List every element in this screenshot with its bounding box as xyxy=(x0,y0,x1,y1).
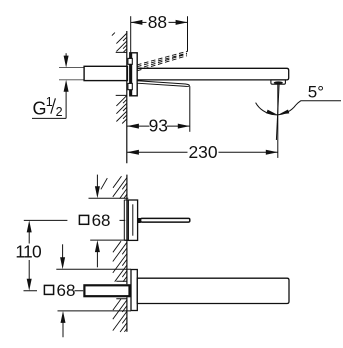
svg-text:1: 1 xyxy=(46,95,53,109)
svg-text:93: 93 xyxy=(149,115,168,135)
svg-text:5°: 5° xyxy=(308,83,324,102)
svg-text:68: 68 xyxy=(92,211,111,230)
svg-text:230: 230 xyxy=(188,142,217,162)
svg-text:110: 110 xyxy=(15,242,41,262)
svg-text:88: 88 xyxy=(148,12,167,32)
svg-text:68: 68 xyxy=(57,281,76,300)
svg-text:G: G xyxy=(33,99,47,119)
svg-text:2: 2 xyxy=(56,105,63,119)
